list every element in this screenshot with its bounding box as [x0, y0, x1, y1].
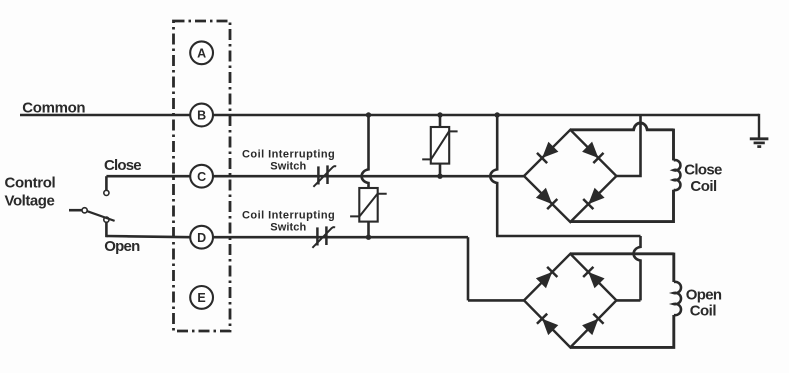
label Coil Interrupting Switch 1	[242, 149, 335, 173]
svg-text:Coil: Coil	[690, 303, 717, 320]
wire open feed vertical with hop over C row	[490, 115, 497, 236]
diode CR2-4 (lower-right)	[582, 314, 603, 335]
svg-text:Coil: Coil	[690, 178, 717, 195]
svg-text:Coil Interrupting: Coil Interrupting	[242, 209, 335, 221]
diode CR1-4 (lower-right)	[583, 188, 604, 209]
svg-text:Open: Open	[686, 286, 722, 303]
node junction dot B-V2	[366, 112, 371, 117]
inductor Open Coil	[674, 282, 681, 315]
varistor V1 bottom stub	[439, 164, 442, 177]
svg-text:Switch: Switch	[270, 221, 306, 233]
open rectifier bridge CR2 diamond	[524, 254, 616, 348]
diode CR1-3 (lower-left)	[536, 188, 557, 209]
coil interrupting switch S2 (D row)	[312, 226, 335, 247]
wire close coil bottom lead	[570, 190, 673, 222]
wire open coil top lead	[672, 253, 675, 282]
terminal D	[190, 226, 213, 249]
varistor V1 body	[422, 127, 457, 164]
svg-text:E: E	[197, 291, 205, 305]
contact circle close	[104, 190, 109, 195]
diode CR2-3 (lower-left)	[537, 314, 558, 335]
terminal A	[190, 41, 213, 64]
wire Close drop to contact	[105, 176, 108, 190]
wire open feed right vertical with hop over open-coil line	[634, 236, 641, 300]
inductor Close Coil	[674, 160, 681, 190]
svg-text:Control: Control	[5, 174, 56, 191]
wire Open row left	[106, 236, 190, 237]
label Control Voltage	[5, 174, 56, 209]
svg-text:A: A	[197, 46, 206, 60]
wire Open feed to bridge	[468, 299, 524, 302]
svg-text:Open: Open	[104, 238, 140, 255]
terminal B	[190, 104, 213, 127]
svg-text:Coil Interrupting: Coil Interrupting	[242, 149, 335, 161]
wire close coil top lead	[672, 129, 675, 161]
node junction dot D-V2	[366, 235, 371, 240]
wire open coil bottom lead	[570, 315, 674, 347]
svg-text:B: B	[197, 109, 206, 123]
wire open feed horizontal	[496, 235, 641, 238]
label Close	[104, 157, 141, 174]
switch blade	[87, 211, 114, 221]
svg-text:Close: Close	[684, 162, 722, 179]
svg-text:Voltage: Voltage	[5, 192, 55, 209]
varistor V1 top stub	[439, 115, 442, 127]
label Open Coil	[686, 286, 722, 319]
label Common	[22, 100, 85, 117]
svg-text:Switch: Switch	[270, 161, 306, 173]
label Coil Interrupting Switch 2	[242, 209, 335, 233]
node junction dot B-open-feed	[495, 112, 500, 117]
wire Open row mid (to corner)	[213, 236, 468, 239]
switch pole circle	[104, 217, 109, 222]
svg-text:C: C	[197, 170, 206, 184]
wire close bridge top vertex to coil (hop over vertical)	[570, 123, 673, 130]
ground symbol	[750, 114, 769, 147]
switch hinge circle	[82, 208, 87, 213]
diode CR2-2 (upper-right)	[583, 267, 604, 288]
varistor V2 body	[350, 188, 387, 222]
wire Common right segment	[213, 114, 759, 117]
wire Close row right (to close bridge left vertex)	[213, 175, 524, 178]
wire close bridge right vertex to Common	[616, 115, 640, 176]
svg-text:Close: Close	[104, 157, 141, 174]
wire open bridge top vertex to coil	[570, 252, 674, 255]
terminal C	[190, 165, 213, 188]
close rectifier bridge CR1 diamond	[524, 130, 616, 222]
diode CR2-1 (upper-left)	[536, 267, 557, 288]
wire switch to Open row	[105, 222, 108, 237]
node junction dot V1-C	[437, 174, 442, 179]
node junction dot B-V1	[437, 112, 442, 117]
label Close Coil	[684, 162, 722, 195]
varistor V2 bottom stub	[367, 222, 370, 238]
wire Open feed down	[467, 237, 470, 300]
svg-text:D: D	[197, 231, 206, 245]
diode CR1-2 (upper-right)	[582, 142, 603, 163]
wire open bridge right vertex stub	[616, 299, 640, 302]
wire Common left segment	[20, 114, 190, 117]
wire V2 feed from Common with hop over C row	[362, 115, 369, 188]
wire switch lead	[69, 209, 82, 212]
diode CR1-1 (upper-left)	[537, 142, 558, 163]
wire Close row left	[106, 175, 190, 178]
terminal block TB1 outline	[174, 21, 231, 331]
label Open	[104, 238, 140, 255]
coil interrupting switch S1 (C row)	[313, 165, 336, 186]
terminal E	[190, 286, 213, 309]
